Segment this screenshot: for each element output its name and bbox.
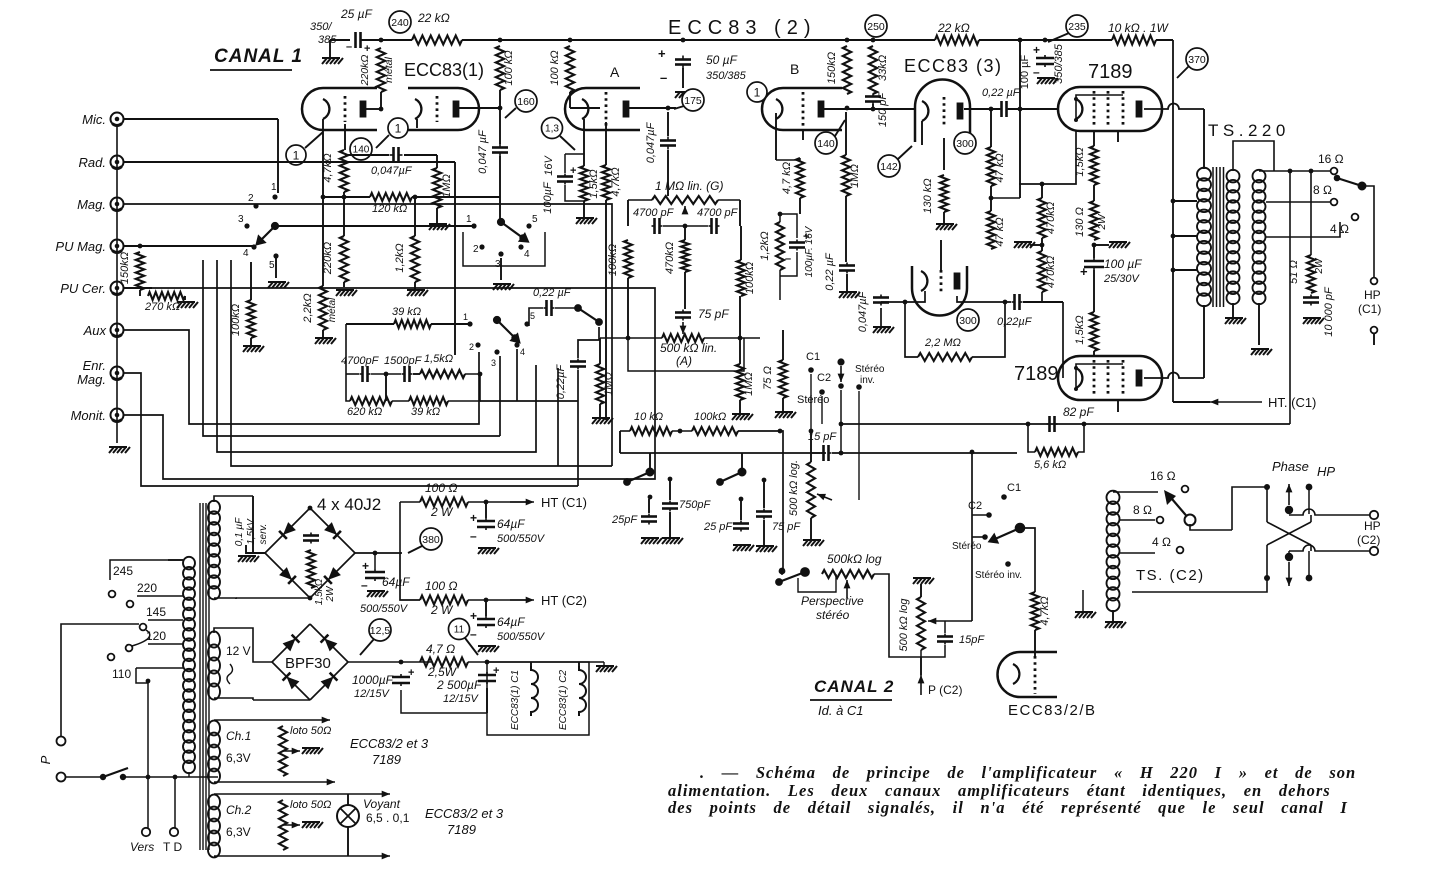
resistor 470 kOhm lower xyxy=(1038,251,1046,292)
ground 75 Ohm xyxy=(775,412,796,418)
wire 100uF loop xyxy=(564,154,566,173)
transformer Ch2 winding xyxy=(208,795,220,858)
svg-text:ECC83/2 et 3: ECC83/2 et 3 xyxy=(350,736,429,751)
svg-text:100 kΩ: 100 kΩ xyxy=(503,50,515,85)
wiper 500k C2 xyxy=(928,620,960,622)
wire sel to HP xyxy=(1362,186,1374,277)
svg-text:BPF30: BPF30 xyxy=(285,655,331,672)
wire 380 up xyxy=(399,502,401,553)
svg-text:370: 370 xyxy=(1188,54,1206,66)
potentiometer 1 MOhm lin G xyxy=(652,196,718,204)
node 25b top xyxy=(739,497,744,502)
svg-text:16V: 16V xyxy=(543,155,555,176)
tube ECC83 (1) right half xyxy=(408,88,479,130)
svg-text:Ch.1: Ch.1 xyxy=(226,729,251,743)
svg-text:ECC83 (2): ECC83 (2) xyxy=(668,17,816,39)
tube 7189 lower int bar xyxy=(1076,364,1123,389)
wire rail tap1 xyxy=(1173,200,1197,202)
arrow stereo xyxy=(840,366,842,382)
potentiometer loto 50 Ch2 xyxy=(279,800,287,850)
node fb mid xyxy=(384,372,389,377)
svg-text:5: 5 xyxy=(532,214,538,225)
wire 4700 mid drop xyxy=(684,226,686,240)
svg-text:1: 1 xyxy=(271,182,277,193)
node circle 300 upper xyxy=(954,132,976,154)
svg-text:1MΩ: 1MΩ xyxy=(441,174,453,198)
svg-text:100kΩ: 100kΩ xyxy=(744,262,756,294)
jack Mag. xyxy=(111,198,124,211)
pointer circle1b xyxy=(376,135,389,148)
wire 750 link xyxy=(669,479,671,500)
wire sec2 bottom xyxy=(1258,303,1260,345)
transformer 12V secondary xyxy=(208,631,220,699)
wire B bias box xyxy=(779,214,781,222)
svg-text:5: 5 xyxy=(530,311,535,321)
svg-text:4,7kΩ: 4,7kΩ xyxy=(610,167,622,196)
terminal 245 xyxy=(109,591,116,598)
node circle 160 xyxy=(515,90,537,112)
svg-text:160: 160 xyxy=(517,96,535,108)
svg-text:serv.: serv. xyxy=(258,524,269,545)
node circle 250 xyxy=(865,15,887,37)
jack Enr. xyxy=(111,367,124,380)
capacitor 10000 pF xyxy=(1303,295,1319,306)
contact hp up xyxy=(1306,484,1313,491)
wire pot A line r xyxy=(704,337,760,339)
svg-text:2,2kΩ: 2,2kΩ xyxy=(302,293,314,323)
wire t3b grid up xyxy=(940,240,942,270)
wire 245 xyxy=(168,559,183,561)
svg-text:4 Ω: 4 Ω xyxy=(1152,535,1171,549)
wire tone b xyxy=(578,327,599,358)
svg-text:4,7 kΩ: 4,7 kΩ xyxy=(781,162,793,194)
wire t3 anode xyxy=(964,108,1000,110)
svg-text:5: 5 xyxy=(269,260,275,271)
svg-text:145: 145 xyxy=(146,605,166,619)
wire fb row ext xyxy=(480,400,578,402)
svg-text:(C1): (C1) xyxy=(1358,302,1381,316)
pointer 160 xyxy=(505,108,516,118)
wire mains junction xyxy=(147,681,149,777)
wire 100uF top xyxy=(1093,245,1095,258)
svg-text:Mic.: Mic. xyxy=(82,112,106,127)
node circle 235 xyxy=(1066,15,1088,37)
node 47k mid xyxy=(989,196,994,201)
terminal TD xyxy=(170,828,178,836)
terminal 220 xyxy=(127,601,134,608)
terminal 8 Ohm xyxy=(1331,199,1338,206)
svg-text:75 pF: 75 pF xyxy=(698,307,729,321)
wire 470k top xyxy=(1041,184,1043,198)
svg-text:500kΩ log: 500kΩ log xyxy=(827,552,882,566)
capacitor 4700 pF fb xyxy=(360,366,371,382)
ground sec2 xyxy=(1251,349,1272,355)
pointer 142 xyxy=(898,146,912,159)
svg-text:C1: C1 xyxy=(1007,482,1021,494)
node circle 12,5 xyxy=(369,619,391,641)
underline CANAL 1 xyxy=(210,69,292,71)
contact 4 bank2 xyxy=(518,244,523,249)
resistor 4.7 kOhm cathode1 xyxy=(340,150,348,192)
capacitor 75 pF b xyxy=(756,509,772,520)
wire hv top xyxy=(214,496,253,502)
node A plate rail xyxy=(568,38,573,43)
wire canal2 top xyxy=(950,514,952,516)
contact C1 xyxy=(808,367,814,373)
tube 7189 upper xyxy=(1058,87,1162,131)
svg-text:2,2 MΩ: 2,2 MΩ xyxy=(924,337,961,349)
diode bridge 3 xyxy=(279,567,292,580)
node 150k rail xyxy=(845,38,850,43)
svg-text:HP: HP xyxy=(1364,519,1381,533)
ground 0.047 t3b xyxy=(873,327,894,333)
node 50uF top xyxy=(681,38,686,43)
node A out xyxy=(666,106,671,111)
wire 120 tap xyxy=(148,643,183,645)
resistor 100 kOhm grid1 xyxy=(247,300,255,338)
svg-text:130 Ω: 130 Ω xyxy=(1074,207,1086,237)
wire 270k to gnd xyxy=(184,296,186,300)
node 100k top xyxy=(498,38,503,43)
svg-text:1,5kΩ: 1,5kΩ xyxy=(314,578,325,605)
wire fb left col xyxy=(346,324,350,401)
transformer TS C2 xyxy=(1107,491,1120,612)
wire 64res xyxy=(374,553,376,569)
svg-text:ECC83/2/B: ECC83/2/B xyxy=(1008,702,1097,719)
capacitor 15 pF xyxy=(821,445,832,461)
wire B anode out xyxy=(824,108,915,110)
resistor 1.5 kOhm fb xyxy=(420,370,465,378)
ground 0.22 mid xyxy=(839,292,860,298)
svg-text:Perspective: Perspective xyxy=(801,594,864,608)
wire stereo drop2 xyxy=(821,396,823,424)
ground 1M tone R xyxy=(732,414,753,420)
svg-text:–: – xyxy=(470,529,477,543)
svg-text:4,7kΩ: 4,7kΩ xyxy=(322,153,334,182)
terminal Vers xyxy=(142,828,150,836)
pointer 380 xyxy=(408,546,422,553)
svg-text:T D: T D xyxy=(163,840,182,854)
svg-text:+: + xyxy=(408,667,414,679)
transformer TS220 secondary 1 xyxy=(1227,170,1240,304)
contact 1 bank3 xyxy=(467,321,472,326)
node fb right xyxy=(478,372,483,377)
capacitor 100 uF 25/30V xyxy=(1084,258,1104,270)
svg-text:15pF: 15pF xyxy=(959,634,985,646)
svg-text:métal: métal xyxy=(327,297,338,322)
svg-text:500 kΩ lin.: 500 kΩ lin. xyxy=(660,341,717,355)
wire fb net mid xyxy=(371,373,401,375)
capacitor 64 uF C2 xyxy=(477,616,495,628)
wire phase down stub xyxy=(1288,551,1290,557)
resistor 22 kOhm right xyxy=(935,36,979,45)
tube ECC83(3) upper dome xyxy=(915,80,970,143)
terminal 110 xyxy=(108,654,115,661)
capacitor 50 uF xyxy=(675,56,691,69)
wire 150k to PU Cer xyxy=(139,290,141,296)
wire snubber top xyxy=(1310,171,1312,255)
wire tone R top xyxy=(740,226,742,260)
wire 75b gnd xyxy=(763,520,765,546)
svg-text:470kΩ: 470kΩ xyxy=(1045,256,1057,288)
terminal 120 xyxy=(126,645,133,652)
resistor 100 kOhm A plate xyxy=(566,46,574,92)
svg-text:6,3V: 6,3V xyxy=(226,825,251,839)
wire pot A strap xyxy=(628,338,744,371)
resistor 100 Ohm 2W a xyxy=(420,498,468,507)
wire 120k right xyxy=(412,196,500,198)
svg-text:500/550V: 500/550V xyxy=(497,533,546,545)
wire 50uF gnd xyxy=(682,68,684,88)
ground 130k xyxy=(936,224,957,230)
svg-text:8 Ω: 8 Ω xyxy=(1313,183,1332,197)
wire 220k to anode b xyxy=(380,92,382,109)
node circle 370 xyxy=(1186,48,1208,70)
wire fb takeoff xyxy=(1289,171,1291,424)
wire top rail mid xyxy=(462,39,935,41)
tube ECC83(3) upper guts xyxy=(922,101,928,121)
svg-text:Stéréo: Stéréo xyxy=(855,364,885,375)
wire 39k right xyxy=(431,323,468,325)
ground 750 xyxy=(662,538,683,544)
wire t3 grid xyxy=(943,138,945,170)
wire 1.2k top xyxy=(414,197,416,236)
resistor 39 kOhm b xyxy=(409,397,448,405)
svg-text:10 000 pF: 10 000 pF xyxy=(1323,286,1335,337)
svg-text:CANAL 1: CANAL 1 xyxy=(214,46,303,67)
wire 7189u anode hop xyxy=(1144,104,1204,110)
svg-text:175: 175 xyxy=(684,95,702,107)
switch mains lever xyxy=(103,768,128,777)
wire 47k link xyxy=(990,186,992,211)
svg-text:0,047µF: 0,047µF xyxy=(645,121,657,163)
box ch1 xyxy=(208,719,330,721)
wire 4.7k C2 down xyxy=(1034,630,1036,658)
svg-text:47 kΩ: 47 kΩ xyxy=(994,153,1006,182)
wire top rail right1 xyxy=(979,39,1112,41)
node 75b top xyxy=(762,478,767,483)
wire bank2 gnd stub xyxy=(500,258,502,280)
wire screen divider drop xyxy=(1019,40,1021,198)
svg-text:33kΩ: 33kΩ xyxy=(877,55,889,81)
wiper loto ch1 xyxy=(283,750,300,752)
wire fb bottom2 xyxy=(392,400,409,402)
tube ECC83(2) B half xyxy=(762,88,842,130)
ground sec1 xyxy=(1225,318,1246,324)
transformer TS220 secondary 2 xyxy=(1253,170,1266,304)
resistor 22 kOhm plate feed xyxy=(412,36,462,45)
wire hp down drop xyxy=(1308,551,1310,578)
wire 4.7kB bottom xyxy=(799,198,801,214)
svg-text:470kΩ: 470kΩ xyxy=(664,242,676,274)
resistor 1.5 kOhm 2W psu xyxy=(307,550,315,588)
resistor 10 kOhm 1W xyxy=(1112,36,1156,45)
arrow TS C2 sel xyxy=(1164,490,1176,505)
svg-text:ECC83(1) C2: ECC83(1) C2 xyxy=(558,670,569,730)
wire 1M tone R gnd xyxy=(739,400,741,414)
svg-text:100 µF: 100 µF xyxy=(1019,54,1031,89)
svg-text:470kΩ: 470kΩ xyxy=(1045,202,1057,234)
lamp Voyant xyxy=(337,805,359,827)
svg-text:2,5W: 2,5W xyxy=(427,665,458,679)
node rail tap3 xyxy=(1171,268,1176,273)
terminal 8 C2 xyxy=(1157,517,1164,524)
wire 1M tone L xyxy=(599,404,601,418)
capacitor 750 pF xyxy=(662,501,678,512)
svg-text:500 kΩ log: 500 kΩ log xyxy=(898,598,910,652)
wire ch2 bottom xyxy=(214,855,390,857)
wire A cap to tone xyxy=(667,150,669,196)
svg-text:10 kΩ: 10 kΩ xyxy=(634,411,663,423)
wire cathode2 down xyxy=(416,119,418,128)
wire bridge in left xyxy=(253,552,265,554)
wire 100a left xyxy=(400,501,420,503)
svg-text:142: 142 xyxy=(880,161,898,173)
capacitor 0.1 uF serv xyxy=(303,533,319,544)
transformer mains core xyxy=(200,503,209,850)
svg-text:12/15V: 12/15V xyxy=(354,688,391,700)
wire 1M tone R top xyxy=(739,296,741,364)
terminal P a xyxy=(57,737,66,746)
wire tap 8 xyxy=(1266,201,1330,203)
wire phase in xyxy=(1232,487,1267,530)
wire 110 box xyxy=(136,668,148,683)
svg-text:1000µF: 1000µF xyxy=(352,673,394,687)
potentiometer 500 kOhm log persp xyxy=(822,570,874,578)
svg-text:loto 50Ω: loto 50Ω xyxy=(290,725,331,737)
wire rad drop xyxy=(454,162,456,355)
capacitor 0.047 uF A out xyxy=(660,137,676,150)
wire rad feed xyxy=(124,161,455,163)
capacitor 0.22 uF t3 out xyxy=(999,101,1010,117)
svg-text:2W: 2W xyxy=(1314,257,1325,275)
wire bus enr xyxy=(124,373,578,486)
wire bank3 c4 drop xyxy=(516,349,518,401)
ground jack bus xyxy=(109,447,130,453)
svg-text:240: 240 xyxy=(391,17,409,29)
svg-text:1MΩ: 1MΩ xyxy=(743,372,755,396)
resistor 130 kOhm xyxy=(940,175,948,212)
svg-text:25 µF: 25 µF xyxy=(340,7,373,21)
capacitor 64 uF res xyxy=(365,569,385,581)
resistor 47 kOhm lower xyxy=(987,211,995,249)
svg-text:C1: C1 xyxy=(806,351,820,363)
wire 100uF top xyxy=(565,153,584,155)
svg-text:110: 110 xyxy=(112,667,131,681)
terminal HP C1 a xyxy=(1371,278,1378,285)
svg-text:12 V: 12 V xyxy=(226,644,251,658)
svg-text:1: 1 xyxy=(293,148,300,162)
node mains 110 xyxy=(146,679,151,684)
svg-text:0,047µF: 0,047µF xyxy=(857,290,869,332)
svg-text:270 kΩ: 270 kΩ xyxy=(144,301,180,313)
resistor 1.2 kOhm B xyxy=(776,222,784,270)
svg-text:2 500µF: 2 500µF xyxy=(436,678,482,692)
svg-text:25pF: 25pF xyxy=(611,514,638,526)
svg-text:25 pF: 25 pF xyxy=(703,521,733,533)
wire 220 tap xyxy=(137,595,183,597)
svg-text:300: 300 xyxy=(956,138,974,150)
node 500klog top xyxy=(809,429,814,434)
node circle 11 xyxy=(449,619,470,640)
transformer mains primary xyxy=(183,557,195,773)
svg-text:P (C2): P (C2) xyxy=(928,683,962,697)
capacitor 25 pF a xyxy=(641,514,657,525)
wire pot G left drop xyxy=(627,200,629,226)
wiper loto ch2 xyxy=(283,824,300,826)
wire 110 tap xyxy=(136,667,183,669)
wire P sw out xyxy=(123,776,218,778)
node 2.2M out xyxy=(1003,300,1008,305)
svg-text:1,3: 1,3 xyxy=(545,124,559,135)
wire pot G left xyxy=(628,199,652,201)
contact 4 bank1 xyxy=(251,244,256,249)
node mains sw xyxy=(146,775,151,780)
svg-text:100 Ω: 100 Ω xyxy=(425,481,457,495)
wire heater gnd stub xyxy=(603,662,605,666)
wire bridge out xyxy=(355,552,402,554)
wire A plate corner xyxy=(570,107,600,109)
node anode1 feed xyxy=(379,107,384,112)
node rail tap1 xyxy=(1171,199,1176,204)
svg-text:TS. (C2): TS. (C2) xyxy=(1136,567,1205,584)
wire row left xyxy=(620,430,630,432)
wire P switch xyxy=(66,776,103,778)
wire primary top xyxy=(1203,109,1205,169)
terminal 16 Ohm xyxy=(1331,168,1338,175)
svg-text:1,5kΩ: 1,5kΩ xyxy=(424,353,453,365)
switch wiper bank3 xyxy=(494,317,519,342)
resistor 120 kOhm xyxy=(370,193,412,201)
tube ECC83/2/B xyxy=(998,652,1057,697)
node circle 142 xyxy=(878,155,900,177)
wire 12v top xyxy=(214,628,272,662)
node cathode junction xyxy=(342,195,347,200)
wire 150pF down xyxy=(872,104,874,109)
node 5.6k l xyxy=(1026,422,1031,427)
node circle 140 B xyxy=(815,132,837,154)
wire 25uF left xyxy=(330,39,350,41)
svg-text:220: 220 xyxy=(137,581,157,595)
wire grid1 stub xyxy=(344,124,346,150)
diode bpf 1 xyxy=(283,639,296,652)
wire 380 down xyxy=(400,553,420,600)
node screen cross xyxy=(1018,107,1023,112)
resistor 100 kOhm row xyxy=(692,427,738,435)
wire fb net r xyxy=(413,373,420,375)
svg-text:130 kΩ: 130 kΩ xyxy=(922,178,934,213)
wire 500klog top xyxy=(810,431,812,462)
svg-text:7189: 7189 xyxy=(372,752,401,767)
wire 120k left xyxy=(343,192,345,197)
capacitor 4700 pF left xyxy=(652,218,663,234)
node PU Mag divider xyxy=(138,244,143,249)
svg-text:10 kΩ . 1W: 10 kΩ . 1W xyxy=(1108,21,1169,35)
wire cathode1 down xyxy=(322,119,324,286)
svg-text:+: + xyxy=(1033,43,1040,57)
wire bridge d2 xyxy=(310,508,355,553)
svg-text:620 kΩ: 620 kΩ xyxy=(347,406,382,418)
svg-text:ECC83/2 et 3: ECC83/2 et 3 xyxy=(425,806,504,821)
svg-text:15 pF: 15 pF xyxy=(808,431,837,443)
svg-text:1MΩ: 1MΩ xyxy=(849,164,861,188)
wire bus mag xyxy=(124,204,612,466)
svg-text:500/550V: 500/550V xyxy=(360,603,409,615)
wire 4700 mid xyxy=(663,225,708,227)
ground 1M grid2 xyxy=(429,224,450,230)
arrow phase down xyxy=(1288,562,1290,586)
ground serv cap xyxy=(238,556,259,562)
